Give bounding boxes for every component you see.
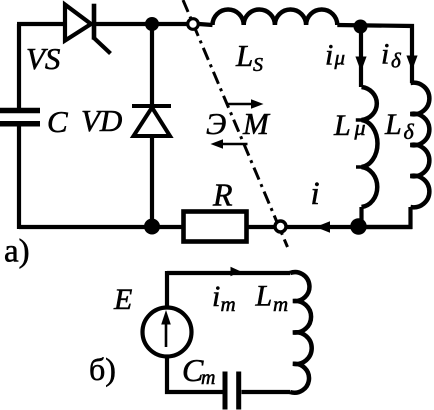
inductor Ldelta xyxy=(411,83,430,208)
wire b bottom right xyxy=(242,390,291,394)
source E circle xyxy=(143,308,192,357)
arrow electrical-to-mech right xyxy=(226,99,264,108)
current arrow i_delta xyxy=(406,56,417,71)
label i_m xyxy=(212,280,236,316)
resistor R xyxy=(184,212,247,242)
svg-text:а): а) xyxy=(4,234,30,270)
label VD xyxy=(81,103,122,138)
svg-text:m: m xyxy=(273,292,288,316)
wire bottom left xyxy=(19,225,182,229)
svg-text:δ: δ xyxy=(391,49,402,73)
wire bottom right xyxy=(287,225,412,229)
diode VD xyxy=(132,106,171,136)
svg-text:E: E xyxy=(113,283,132,316)
wire resistor to node xyxy=(248,225,274,229)
label i_mu xyxy=(325,39,345,72)
label C xyxy=(47,104,68,139)
junction node bottom left xyxy=(144,219,160,235)
current arrow i_mu xyxy=(355,57,366,72)
svg-text:μ: μ xyxy=(334,46,346,70)
svg-text:S: S xyxy=(253,54,263,76)
capacitor Cm plates xyxy=(225,372,239,410)
label E xyxy=(113,283,132,316)
label E (electrical domain) xyxy=(206,106,226,141)
inductor Lmu xyxy=(356,87,378,207)
inductor LS xyxy=(213,9,338,25)
current arrow i_m xyxy=(231,267,242,276)
label M (mechanical domain) xyxy=(242,106,271,141)
wire Lmu branch top xyxy=(359,26,363,87)
label R xyxy=(212,177,233,213)
label b) xyxy=(89,351,116,387)
circuit b: top wire with arrow xyxy=(167,271,290,275)
label a) xyxy=(4,234,30,270)
svg-text:i: i xyxy=(311,176,320,212)
junction node top left xyxy=(145,17,159,31)
wire b left top xyxy=(165,271,169,306)
label i_delta xyxy=(381,38,402,73)
wire b bottom left xyxy=(167,358,223,392)
wire Ldelta branch bottom xyxy=(361,207,411,227)
wire left vertical lower xyxy=(17,126,21,229)
svg-text:m: m xyxy=(201,367,215,389)
svg-text:μ: μ xyxy=(354,115,366,140)
wire top left xyxy=(17,22,65,26)
wire top right xyxy=(337,25,412,83)
capacitor C plates xyxy=(0,111,40,124)
arrow mech-to-electrical left xyxy=(211,139,248,148)
label Ldelta xyxy=(384,108,415,144)
wire left vertical upper xyxy=(17,24,21,108)
source E arrow xyxy=(161,310,171,347)
svg-text:i: i xyxy=(212,280,220,313)
label i bottom xyxy=(311,176,320,212)
terminal circle top xyxy=(188,19,199,30)
svg-text:m: m xyxy=(221,292,236,316)
svg-text:i: i xyxy=(325,39,333,72)
boundary dash-dot line xyxy=(183,0,288,247)
label LS xyxy=(235,38,263,76)
wire top middle xyxy=(94,22,187,26)
wire circle to coil xyxy=(199,24,213,25)
svg-text:δ: δ xyxy=(404,119,415,144)
inductor Lm xyxy=(290,272,312,393)
svg-text:б): б) xyxy=(89,351,116,387)
svg-text:R: R xyxy=(212,177,233,213)
label Lmu xyxy=(333,109,366,142)
label Cm xyxy=(182,352,215,389)
current arrow i bottom xyxy=(316,221,331,232)
svg-text:Э: Э xyxy=(206,106,226,141)
svg-text:M: M xyxy=(242,106,271,141)
terminal circle bottom xyxy=(275,221,286,232)
svg-text:L: L xyxy=(384,108,402,141)
junction node bottom right xyxy=(350,218,367,235)
diode VD branch wire upper xyxy=(150,24,154,106)
thyristor VS xyxy=(65,4,111,54)
svg-text:L: L xyxy=(235,38,253,73)
label Lm xyxy=(255,280,289,317)
svg-text:VS: VS xyxy=(26,41,60,76)
svg-text:L: L xyxy=(333,109,351,142)
svg-text:C: C xyxy=(47,104,68,139)
diode VD branch wire lower xyxy=(150,136,154,227)
wire Lmu branch bottom xyxy=(359,207,363,227)
junction node top right xyxy=(354,20,368,34)
svg-text:i: i xyxy=(381,38,389,71)
label VS xyxy=(26,41,60,76)
svg-text:VD: VD xyxy=(81,103,122,138)
svg-text:L: L xyxy=(255,280,273,313)
